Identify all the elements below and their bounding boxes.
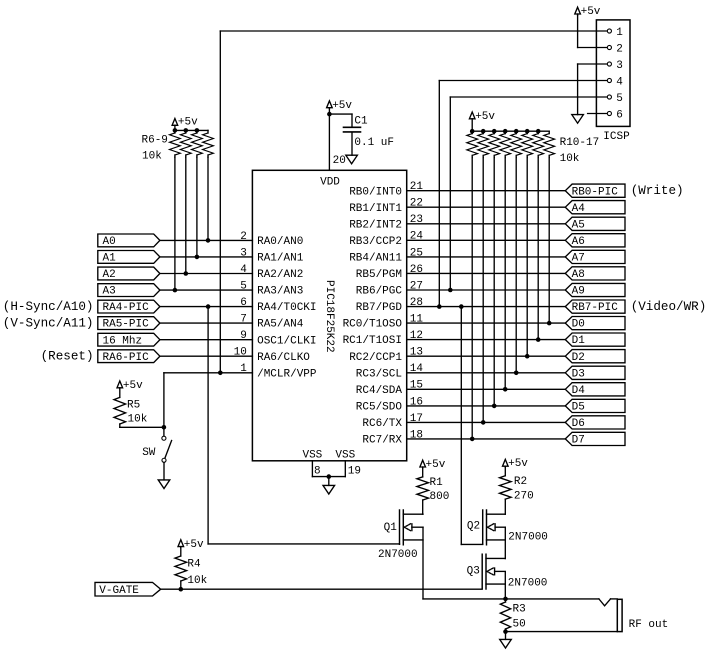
svg-text:A9: A9 <box>572 286 585 298</box>
wire Q1 source down <box>422 527 424 599</box>
junction R6-9 rail at x=174.9 <box>173 128 178 133</box>
wire SW to ground <box>163 463 165 480</box>
ground (ICSP pin 3) <box>572 115 584 124</box>
svg-text:+5v: +5v <box>508 458 528 470</box>
node tag D6 <box>565 416 625 429</box>
svg-text:0.1 uF: 0.1 uF <box>354 137 394 149</box>
junction V-GATE - R4 <box>179 587 184 592</box>
svg-text:3: 3 <box>616 60 623 72</box>
svg-text:A1: A1 <box>103 253 117 265</box>
svg-text:(H-Sync/A10): (H-Sync/A10) <box>3 300 94 314</box>
svg-text:1: 1 <box>616 27 623 39</box>
J1 ICSP pin 6 contact <box>607 111 611 115</box>
wire U1 to A7 <box>407 256 566 258</box>
svg-text:SW: SW <box>142 447 156 459</box>
power +5V (ICSP pin 2) <box>575 7 581 14</box>
svg-text:RA5-PIC: RA5-PIC <box>103 319 150 331</box>
svg-text:+5v: +5v <box>475 111 495 123</box>
svg-text:(Write): (Write) <box>631 184 684 198</box>
svg-text:R4: R4 <box>187 559 201 571</box>
junction RB7 - ICSP pin 4 <box>437 304 442 309</box>
node tag A4 <box>565 201 625 214</box>
wire +5V to ICSP pin 2 <box>577 15 579 48</box>
wire A2 to U1 <box>160 273 253 275</box>
svg-text:RC4/SDA: RC4/SDA <box>356 385 403 397</box>
svg-text:V-GATE: V-GATE <box>99 585 139 597</box>
power +5V (R2) <box>503 459 509 466</box>
resistor R7 <box>185 130 187 133</box>
svg-text:RA6-PIC: RA6-PIC <box>103 352 150 364</box>
junction R8 on A1 line <box>195 255 200 260</box>
wire U1 pin 8 VSS down <box>311 461 313 477</box>
wire U1 to D2 <box>407 355 566 357</box>
svg-text:C1: C1 <box>354 115 368 127</box>
svg-text:800: 800 <box>430 491 450 503</box>
resistor R13 <box>504 131 506 133</box>
resistor R12 <box>493 131 495 133</box>
node tag RB7-PIC <box>565 300 625 313</box>
svg-text:D1: D1 <box>572 335 586 347</box>
wire U1 pin 1 /MCLR left <box>164 372 253 374</box>
svg-text:/MCLR/VPP: /MCLR/VPP <box>257 368 317 380</box>
svg-text:A3: A3 <box>103 286 116 298</box>
svg-text:A8: A8 <box>572 269 585 281</box>
resistor R11 <box>482 131 484 133</box>
ground (SW) <box>158 480 170 489</box>
resistor R6 <box>174 130 176 133</box>
svg-text:10k: 10k <box>142 151 162 163</box>
svg-text:(Reset): (Reset) <box>41 350 94 364</box>
wire A0 to U1 <box>160 239 253 241</box>
resistor R15 <box>526 131 528 133</box>
wire R4 to V-GATE line <box>180 581 182 589</box>
wire R1 to Q1 drain <box>422 500 424 514</box>
svg-text:RA4/T0CKI: RA4/T0CKI <box>257 302 316 314</box>
svg-text:R3: R3 <box>513 604 526 616</box>
wire RA4 line to Q1 gate <box>207 307 209 544</box>
junction R3 bottom <box>503 629 508 634</box>
junction R17 on D0 line <box>547 321 552 326</box>
wire +5V to R4 <box>180 548 182 556</box>
svg-text:270: 270 <box>514 490 534 502</box>
resistor R10 <box>471 131 473 133</box>
wire VDD node to C1 <box>329 113 352 115</box>
svg-text:RB2/INT2: RB2/INT2 <box>349 219 402 231</box>
wire RF node to connector <box>506 598 599 600</box>
wire /MCLR node to SW <box>163 427 165 436</box>
svg-text:RC7/RX: RC7/RX <box>362 435 402 447</box>
junction R15 on D2 line <box>525 354 530 359</box>
junction /MCLR - R5 - SW <box>162 425 167 430</box>
wire U1 to D3 <box>407 372 566 374</box>
resistor R3 <box>505 599 507 602</box>
svg-text:RA6/CLKO: RA6/CLKO <box>257 352 310 364</box>
node tag RA5-PIC <box>98 317 160 330</box>
junction R10-17 rail at x=527.2 <box>525 129 530 134</box>
svg-text:VSS: VSS <box>302 450 322 462</box>
svg-text:RA2/AN2: RA2/AN2 <box>257 269 303 281</box>
svg-text:D0: D0 <box>572 319 585 331</box>
wire U1 to A9 <box>407 289 566 291</box>
wire A3 to U1 <box>160 289 253 291</box>
svg-text:D4: D4 <box>572 385 586 397</box>
junction R14 on D3 line <box>514 371 519 376</box>
J1 ICSP pin 2 contact <box>607 45 611 49</box>
svg-text:19: 19 <box>348 465 361 477</box>
junction R10-17 rail at x=472.2 <box>470 129 475 134</box>
svg-text:RF out: RF out <box>629 619 669 631</box>
wire VSS join <box>312 476 345 478</box>
junction RA4 line to Q1 gate <box>206 304 211 309</box>
junction VDD node <box>327 112 332 117</box>
wire RA6-PIC to U1 <box>160 355 253 357</box>
resistor R4 <box>175 556 187 581</box>
svg-text:R2: R2 <box>514 476 527 488</box>
resistor R1 <box>417 477 429 500</box>
svg-text:D2: D2 <box>572 352 585 364</box>
wire R3 to ground <box>505 632 507 640</box>
svg-text:D6: D6 <box>572 418 585 430</box>
svg-text:4: 4 <box>616 76 623 88</box>
svg-text:Q3: Q3 <box>467 566 480 578</box>
junction R16 on D1 line <box>536 337 541 342</box>
wire R6 to A3 line <box>174 157 176 290</box>
wire R15 to D2 line <box>526 158 528 357</box>
svg-text:OSC1/CLKI: OSC1/CLKI <box>257 335 316 347</box>
svg-text:RA4-PIC: RA4-PIC <box>103 302 150 314</box>
wire R11 to D6 line <box>482 158 484 423</box>
node tag 16 Mhz <box>98 333 160 346</box>
svg-text:A5: A5 <box>572 219 585 231</box>
node tag A8 <box>565 267 625 280</box>
wire RA5-PIC to U1 <box>160 322 253 324</box>
svg-text:2N7000: 2N7000 <box>378 549 418 561</box>
power +5V (R6-9 rail) <box>172 119 178 126</box>
junction R6-9 rail at x=196.9 <box>195 128 200 133</box>
wire U1 to A4 <box>407 206 566 208</box>
svg-text:50: 50 <box>513 619 526 631</box>
svg-text:VDD: VDD <box>320 177 340 189</box>
connector J1 ICSP header body <box>596 20 630 127</box>
junction R10 on D7 line <box>470 437 475 442</box>
power +5V (R5) <box>117 381 123 388</box>
svg-text:8: 8 <box>314 465 321 477</box>
node tag A2 <box>98 267 160 280</box>
wire R5 to /MCLR node <box>119 424 121 427</box>
svg-text:(V-Sync/A11): (V-Sync/A11) <box>3 316 94 330</box>
J1 ICSP pin 1 contact <box>607 29 611 33</box>
svg-text:A0: A0 <box>103 236 116 248</box>
wire U1 to D4 <box>407 388 566 390</box>
wire 16 Mhz to U1 <box>160 339 253 341</box>
power +5V (R10-17 rail) <box>469 112 475 119</box>
svg-text:R5: R5 <box>127 400 140 412</box>
switch SW <box>162 436 166 440</box>
svg-text:RB0-PIC: RB0-PIC <box>572 186 619 198</box>
svg-text:RB0/INT0: RB0/INT0 <box>349 186 402 198</box>
svg-text:Q2: Q2 <box>467 520 480 532</box>
wire R16 to D1 line <box>537 158 539 340</box>
wire RB7 to Q2 gate <box>460 307 462 545</box>
wire ICSP pin 4 to RB7/PGD <box>439 80 607 82</box>
svg-text:RA0/AN0: RA0/AN0 <box>257 236 303 248</box>
svg-text:A6: A6 <box>572 236 585 248</box>
transistor Q3 (2N7000) <box>481 554 483 588</box>
wire R9 to A0 line <box>207 157 209 240</box>
node tag D0 <box>565 317 625 330</box>
node tag V-GATE <box>95 582 161 596</box>
node tag D1 <box>565 333 625 346</box>
svg-text:+5v: +5v <box>123 380 143 392</box>
svg-text:RB7-PIC: RB7-PIC <box>572 302 619 314</box>
node tag A3 <box>98 284 160 297</box>
power +5V (VDD) <box>327 101 333 108</box>
resistor R14 <box>515 131 517 133</box>
svg-text:10k: 10k <box>560 153 580 165</box>
junction VSS <box>327 474 332 479</box>
svg-text:(Video/WR): (Video/WR) <box>631 300 707 314</box>
svg-text:A2: A2 <box>103 269 116 281</box>
connector RF out <box>617 599 622 631</box>
svg-text:6: 6 <box>616 109 623 121</box>
node tag RB0-PIC <box>565 184 625 197</box>
wire R3 bottom to connector <box>506 631 618 633</box>
node tag D7 <box>565 432 625 445</box>
svg-text:A4: A4 <box>572 203 586 215</box>
junction R10-17 rail at x=516.2 <box>514 129 519 134</box>
wire U1 to A5 <box>407 223 566 225</box>
svg-text:A7: A7 <box>572 253 585 265</box>
svg-text:RC1/T1OSI: RC1/T1OSI <box>343 335 402 347</box>
svg-text:2N7000: 2N7000 <box>508 532 548 544</box>
junction R6-9 rail at x=185.8 <box>184 128 189 133</box>
junction RB6 - ICSP pin 5 <box>448 288 453 293</box>
junction R10-17 rail at x=538.2 <box>536 129 541 134</box>
capacitor C1 <box>344 126 361 128</box>
node tag RA6-PIC <box>98 350 160 363</box>
svg-text:ICSP: ICSP <box>603 131 630 143</box>
svg-text:10k: 10k <box>187 575 207 587</box>
svg-text:D7: D7 <box>572 435 585 447</box>
wire ICSP pin 1 to /MCLR net (top loop) <box>220 30 607 32</box>
resistor R9 <box>207 130 209 133</box>
svg-text:PIC18F25K22: PIC18F25K22 <box>323 280 335 353</box>
junction R12 on D5 line <box>492 404 497 409</box>
wire ICSP pin 3 to ground <box>578 63 608 65</box>
node tag D5 <box>565 399 625 412</box>
IC U1 PIC18F25K22 body <box>252 170 406 461</box>
svg-text:RB1/INT1: RB1/INT1 <box>349 203 402 215</box>
svg-text:5: 5 <box>616 93 623 105</box>
wire U1 to D7 <box>407 438 566 440</box>
wire R12 to D5 line <box>493 158 495 406</box>
junction RF node (R3 top) <box>503 597 508 602</box>
wire A1 to U1 <box>160 256 253 258</box>
wire U1 to A6 <box>407 239 566 241</box>
node tag A7 <box>565 250 625 263</box>
svg-text:R6-9: R6-9 <box>142 134 168 146</box>
svg-text:2: 2 <box>616 43 623 55</box>
wire U1 to RB0-PIC <box>407 190 566 192</box>
svg-text:RA1/AN1: RA1/AN1 <box>257 253 304 265</box>
svg-text:RB4/AN11: RB4/AN11 <box>349 253 402 265</box>
J1 ICSP pin 5 contact <box>607 95 611 99</box>
wire U1 to RB7-PIC <box>407 306 566 308</box>
junction R7 on A2 line <box>184 271 189 276</box>
wire ICSP pin 6 stub <box>588 113 608 115</box>
wire R10 to D7 line <box>471 158 473 439</box>
wire U1 to D5 <box>407 405 566 407</box>
ground (C1) <box>346 155 358 164</box>
node tag A5 <box>565 217 625 230</box>
transistor Q1 (2N7000) <box>399 510 401 544</box>
wire VSS to ground <box>328 477 330 486</box>
wire U1 to D6 <box>407 421 566 423</box>
node tag A6 <box>565 234 625 247</box>
svg-text:RC2/CCP1: RC2/CCP1 <box>349 352 402 364</box>
wire U1 to D1 <box>407 339 566 341</box>
svg-text:RC6/TX: RC6/TX <box>362 418 402 430</box>
svg-text:RB5/PGM: RB5/PGM <box>356 269 402 281</box>
svg-text:RC0/T1OSO: RC0/T1OSO <box>343 319 403 331</box>
svg-text:+5v: +5v <box>332 100 352 112</box>
wire RA4-PIC to U1 <box>160 306 253 308</box>
svg-text:+5v: +5v <box>178 116 198 128</box>
svg-text:Q1: Q1 <box>384 522 398 534</box>
wire R10-17 +5V rail <box>472 130 549 132</box>
node tag RA4-PIC <box>98 300 160 313</box>
resistor R17 <box>548 131 550 133</box>
resistor R8 <box>196 130 198 133</box>
junction R10-17 rail at x=483.2 <box>481 129 486 134</box>
svg-text:D5: D5 <box>572 402 585 414</box>
node tag A9 <box>565 283 625 296</box>
node tag A1 <box>98 251 160 264</box>
junction R6 on A3 line <box>173 288 178 293</box>
junction /MCLR - ICSP pin1 <box>218 371 223 376</box>
ground (R3) <box>500 639 512 648</box>
svg-text:VSS: VSS <box>335 450 355 462</box>
svg-text:20: 20 <box>333 155 346 167</box>
J1 ICSP pin 3 contact <box>607 62 611 66</box>
svg-text:2N7000: 2N7000 <box>508 577 548 589</box>
svg-text:RA3/AN3: RA3/AN3 <box>257 286 303 298</box>
junction R9 on A0 line <box>206 238 211 243</box>
wire V-GATE to Q3 gate <box>161 588 483 590</box>
wire R8 to A1 line <box>196 157 198 257</box>
wire +5V to R1 <box>422 468 424 477</box>
svg-text:RC5/SDO: RC5/SDO <box>356 402 403 414</box>
transistor Q2 (2N7000) <box>482 510 484 544</box>
wire Q2 source to Q3 drain <box>504 527 506 558</box>
svg-text:D3: D3 <box>572 368 585 380</box>
power +5V (R4) <box>178 540 184 547</box>
resistor R16 <box>537 131 539 133</box>
wire U1 to D0 <box>407 322 566 324</box>
node tag D3 <box>565 366 625 379</box>
svg-text:RC3/SCL: RC3/SCL <box>356 368 402 380</box>
node tag A0 <box>98 234 160 247</box>
svg-text:RA5/AN4: RA5/AN4 <box>257 319 304 331</box>
svg-text:+5v: +5v <box>184 539 204 551</box>
resistor R2 <box>500 476 512 500</box>
wire R17 to D0 line <box>548 158 550 324</box>
junction R10-17 rail at x=494.2 <box>492 129 497 134</box>
svg-text:RB6/PGC: RB6/PGC <box>356 286 403 298</box>
J1 ICSP pin 4 contact <box>607 78 611 82</box>
wire +5V to R2 <box>504 467 506 476</box>
svg-text:16 Mhz: 16 Mhz <box>103 335 143 347</box>
wire R7 to A2 line <box>185 157 187 273</box>
junction R13 on D4 line <box>503 387 508 392</box>
ground (VSS) <box>323 485 335 494</box>
wire C1 to ground <box>351 132 353 155</box>
svg-text:+5v: +5v <box>426 459 446 471</box>
wire +5V to R5 <box>119 389 121 398</box>
svg-text:+5v: +5v <box>581 6 601 18</box>
wire R13 to D4 line <box>504 158 506 390</box>
junction R11 on D6 line <box>481 420 486 425</box>
wire Q3 source down <box>504 572 506 599</box>
wire R14 to D3 line <box>515 158 517 373</box>
svg-text:R1: R1 <box>430 477 444 489</box>
wire U1 pin 19 VSS down <box>344 461 346 477</box>
svg-text:RB3/CCP2: RB3/CCP2 <box>349 236 402 248</box>
wire R2 to Q2 drain <box>504 499 506 514</box>
wire R6-9 +5V rail <box>175 129 208 131</box>
power +5V (R1) <box>420 460 426 467</box>
svg-text:RB7/PGD: RB7/PGD <box>356 302 403 314</box>
svg-text:R10-17: R10-17 <box>560 137 600 149</box>
wire +5V to U1 pin 20 VDD <box>328 108 330 114</box>
wire U1 to A8 <box>407 272 566 274</box>
junction RB7 - Q2 gate <box>459 304 464 309</box>
junction R10-17 rail at x=505.2 <box>503 129 508 134</box>
resistor R5 <box>114 397 126 424</box>
wire ICSP pin 5 to RB6/PGC <box>450 96 607 98</box>
svg-text:10k: 10k <box>128 413 148 425</box>
node tag D4 <box>565 383 625 396</box>
node tag D2 <box>565 350 625 363</box>
